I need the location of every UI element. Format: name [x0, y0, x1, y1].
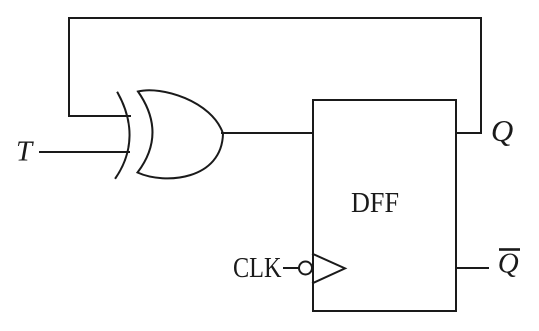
svg-text:Q: Q [498, 248, 519, 280]
wire feedback right vertical (Q to top) [480, 18, 482, 133]
wire XOR output to D [222, 132, 313, 134]
wire feedback top horizontal [69, 17, 481, 19]
wire Q output [456, 132, 481, 134]
CLK edge triangle [313, 254, 345, 283]
wire feedback left vertical [68, 18, 70, 116]
svg-text:T: T [16, 136, 34, 168]
DFF U2 box [313, 100, 456, 311]
svg-text:Q: Q [491, 113, 513, 148]
svg-text:CLK: CLK [233, 253, 282, 284]
XOR gate U1 body [138, 90, 224, 178]
wire CLK input [284, 267, 298, 269]
wire T input [40, 151, 129, 153]
CLK inversion bubble [299, 262, 312, 275]
XOR gate U1 input arc [116, 93, 130, 178]
wire XOR upper input [69, 115, 130, 117]
label Qbar overline [499, 248, 520, 251]
wire Qbar output [456, 267, 488, 269]
svg-text:DFF: DFF [351, 188, 399, 219]
